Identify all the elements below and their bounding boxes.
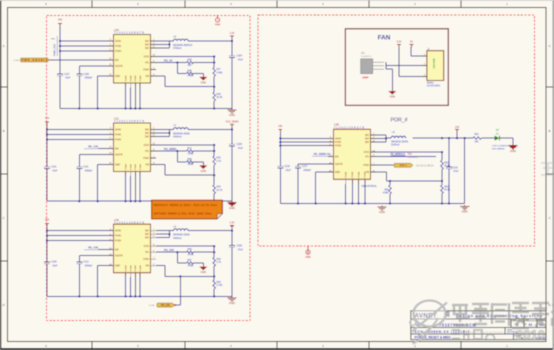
svg-text:DEF: DEF [115,74,121,78]
svg-text:PGND: PGND [135,265,137,272]
svg-text:C209: C209 [237,245,243,247]
svg-text:TLV62130RGTR: TLV62130RGTR [114,120,144,123]
svg-text:PGND: PGND [135,163,137,170]
capacitor C110 (input bypass) [44,166,50,168]
IC U34 TLV62130RGTR (buck regulator) [114,218,151,273]
wire PG [156,251,187,253]
svg-text:C205: C205 [237,144,243,146]
svg-text:R52: R52 [444,162,449,164]
svg-text:PVIN: PVIN [335,140,341,144]
svg-text:SW: SW [365,133,370,137]
power symbol VIN (circuit 3) [45,222,49,224]
wire inductor to output (POR) [413,137,473,139]
svg-text:EN: EN [335,154,339,158]
svg-text:1.74K: 1.74K [188,255,194,257]
svg-text:C111: C111 [83,167,89,169]
svg-text:A: A [549,44,551,48]
svg-text:VIN: VIN [278,125,282,128]
svg-text:VOS: VOS [144,143,150,147]
ground rail [60,108,232,110]
svg-text:3.3V: 3.3V [397,40,402,43]
svg-text:SW: SW [145,229,150,233]
svg-text:VIN: VIN [45,116,49,120]
svg-text:OPTION: DDR3 (1.5V): R15: 100K: OPTION: DDR3 (1.5V): R15: 100K Ohm [154,211,213,215]
feedback divider lower resistor R36 [213,175,215,185]
scan edge left [0,0,1,350]
wire SS/TR [79,154,113,156]
svg-text:2010: 2010 [516,328,545,343]
svg-text:C109: C109 [83,74,89,76]
scan edge top [0,0,554,2]
feedback divider upper resistor R47 [213,57,215,68]
svg-text:C108: C108 [51,262,57,264]
svg-text:FB: FB [146,264,150,268]
svg-text:PGND: PGND [125,265,127,272]
svg-text:EN: EN [115,248,119,252]
svg-text:R40: R40 [188,249,193,251]
svg-text:DNP: DNP [362,75,368,79]
svg-text:R48: R48 [216,94,221,96]
svg-text:C: C [3,216,5,220]
svg-text:PG: PG [365,154,369,158]
title block row lines [411,318,546,320]
wire port to FB node [175,304,181,306]
power symbol VIN (circuit 1) [58,23,62,25]
title row3 dotted trailing [468,331,504,333]
red dashed section box left (power supplies) [47,16,251,321]
svg-text:PG_1V5: PG_1V5 [161,305,170,307]
power symbol VIN (circuit 2) [45,121,49,123]
svg-text:PG_1V0: PG_1V0 [88,246,98,250]
svg-text:3300pF: 3300pF [85,170,93,172]
svg-text:PG_DDR3: PG_DDR3 [164,147,177,151]
power symbol 5V [410,44,414,46]
ground (FAN) [391,90,393,91]
svg-text:PWR_ENABLE: PWR_ENABLE [22,58,48,62]
svg-text:PG_DDR3-1V: PG_DDR3-1V [314,152,331,156]
pin stubs right [151,230,157,232]
capacitor C216 (POR input) [277,165,283,167]
svg-text:4.99K: 4.99K [383,192,389,194]
svg-text:SW: SW [145,127,150,131]
wire output cap to rail [231,247,233,296]
title block outer [411,311,546,340]
svg-text:R12: R12 [188,148,193,150]
wire EN [50,59,114,61]
svg-text:GND: GND [229,301,235,305]
svg-text:PG_1V: PG_1V [164,59,173,63]
svg-text:B: B [549,129,551,133]
svg-text:3: 3 [424,74,425,76]
svg-text:R60: R60 [384,189,389,191]
JP1 pin stubs [373,61,384,63]
svg-text:PGND: PGND [125,75,127,82]
connector JP1 (DNP) [361,52,373,79]
resistor R12 1.96K (PG pull-up) [187,150,194,153]
power symbol VIN (POR) [279,129,283,131]
wire SW bus [156,129,169,131]
svg-text:EN: EN [115,146,119,150]
ground symbol at output [231,296,233,298]
svg-text:3300pF: 3300pF [303,170,311,172]
wire VOS [156,144,214,146]
port POR_# [394,163,413,167]
zone tick marks bottom [91,342,93,349]
svg-text:GND: GND [201,170,207,173]
svg-text:PWR: PWR [305,257,311,259]
svg-text:SS/TR: SS/TR [115,152,123,156]
pin stubs left [108,40,114,42]
wire FB route [156,265,165,267]
power symbol 3.3V [397,44,401,46]
svg-text:47uF: 47uF [238,148,244,150]
svg-text:GND: GND [510,149,516,153]
wire DEF pin to ground rail [98,265,114,267]
capacitor C217 (POR soft-start) [297,164,299,166]
svg-text:34.0K: 34.0K [444,165,450,167]
wire AVIN [47,230,114,232]
svg-text:PGND: PGND [346,171,348,178]
watermark faint glyph right edge [541,163,553,175]
svg-text:R47: R47 [216,69,221,71]
svg-text:SW: SW [145,46,150,50]
capacitor C218 47uF (POR output) [448,138,450,167]
svg-text:VCC_DDR3: VCC_DDR3 [226,120,240,123]
svg-text:4.99K: 4.99K [188,76,194,78]
svg-text:FSW: FSW [143,156,149,160]
IC U30 TLV62130RGTR (POR supply) [334,123,371,180]
wire PVIN2 [47,240,114,242]
pin stubs (POR) [328,137,334,139]
fan header J7 [427,49,444,88]
svg-text:47uF: 47uF [238,60,244,62]
red dashed section box right (fan / POR) [258,15,535,246]
svg-text:VOS: VOS [144,244,150,248]
svg-text:GND: GND [229,206,235,210]
wire PVIN2 [60,50,114,52]
svg-text:4400mA: 4400mA [173,136,182,139]
svg-text:PVIN: PVIN [335,144,341,148]
svg-text:SW: SW [365,136,370,140]
wire SW bus [156,230,169,232]
wire output to cap [231,130,233,145]
wire inductor to output node [188,40,232,42]
wire VOS [156,56,214,58]
svg-text:PGND: PGND [358,171,360,178]
wire PVIN2 (POR) [280,145,333,147]
inductor L3 [169,230,173,232]
svg-text:4.7K: 4.7K [216,161,221,163]
wire VIN vertical rail [59,26,61,74]
svg-text:VOS: VOS [144,54,150,58]
wire SW bus (POR) [376,134,386,136]
svg-text:SW: SW [145,236,150,240]
svg-text:PVIN: PVIN [115,49,121,53]
svg-text:2: 2 [424,64,425,66]
pin stubs left [108,129,114,131]
watermark glyph clipped at right edge [551,305,554,326]
svg-text:GND: GND [462,210,468,214]
pin stubs left [108,230,114,232]
svg-text:DEF: DEF [335,170,341,174]
wire DEF pin to ground rail [98,164,114,166]
wire VOS (POR) [376,151,442,153]
svg-text:DEF: DEF [115,264,121,268]
wire inductor to output node [188,230,232,232]
ground symbol at output [231,201,233,203]
wire FB route [156,75,165,77]
svg-text:DEF: DEF [115,162,121,166]
svg-text:5V: 5V [410,40,413,43]
svg-text:1-1437565-8: 1-1437565-8 [408,157,418,159]
svg-text:4.99K: 4.99K [188,164,194,166]
svg-text:47uF: 47uF [453,171,459,173]
svg-text:SW: SW [145,42,150,46]
svg-text:PG_1V0: PG_1V0 [88,145,98,149]
svg-text:LED GREEN: LED GREEN [492,149,505,151]
svg-text:PGND: PGND [131,75,133,82]
svg-text:PVIN: PVIN [115,234,121,238]
svg-text:SS/TR: SS/TR [335,162,343,166]
ground (triangle) [202,73,204,75]
svg-text:SRP6040-2R2M: SRP6040-2R2M [173,133,190,135]
resistor R57 4.99K [187,262,194,265]
wire output to ground drop (POR) [464,138,466,203]
ground rail [47,295,232,297]
svg-text:1-104257-1: 1-104257-1 [361,56,372,58]
svg-text:TLV62130RGTR: TLV62130RGTR [114,32,144,35]
wire PG [156,62,187,64]
svg-text:PGND: PGND [135,75,137,82]
inductor L4 [169,40,173,42]
svg-text:VIN: VIN [45,217,49,221]
svg-text:FB: FB [146,74,150,78]
ground (triangle) [202,162,204,164]
wire LED to ground (POR) [500,137,514,139]
svg-text:PGND: PGND [140,75,142,82]
svg-text:R57: R57 [188,260,193,262]
capacitor C107 (input bypass) [57,73,63,75]
svg-text:R66: R66 [188,159,193,161]
wire PG (POR) [376,155,436,157]
svg-text:1V0: 1V0 [455,126,460,129]
resistor R60 4.99K (POR) [389,181,391,185]
svg-text:SW: SW [145,134,150,138]
port PWR marker on left box [217,16,219,18]
power symbol output VCC_DDR3 [230,124,234,126]
capacitor C112 (soft-start) [78,256,80,262]
svg-text:PGND: PGND [131,265,133,272]
svg-text:C217: C217 [302,166,308,168]
svg-text:FSW: FSW [143,67,149,71]
capacitor C109 (soft-start) [78,66,80,74]
svg-text:3300pF: 3300pF [85,78,93,80]
ground after LED (POR) [512,144,514,146]
watermark glyphs (chinese characters imitation) [452,303,549,328]
wire PVIN1 [47,235,114,237]
feedback divider lower resistor R59 [213,276,215,280]
svg-text:POR_#: POR_# [390,118,407,124]
divider lower resistor R53 (POR) [441,181,443,185]
watermark logo blob [410,301,447,344]
svg-text:R59: R59 [216,282,221,284]
svg-text:R46: R46 [188,60,193,62]
capacitor C111 (soft-start) [78,155,80,167]
wire to fan header pin [386,65,422,67]
svg-text:TLV62130RGTR: TLV62130RGTR [114,221,144,224]
IC bottom pins to rail (POR) [345,179,347,184]
LED D7 green [492,129,509,150]
ground rail (POR) [280,203,464,205]
title block cell dividers [510,319,512,328]
svg-text:5.76K: 5.76K [216,285,222,287]
wire PVIN1 [60,45,114,47]
scan edge bottom [0,348,554,350]
wire to ground [386,68,392,70]
svg-text:SW: SW [145,232,150,236]
divider upper resistor R52 (POR) [441,152,443,160]
svg-text:1.96K: 1.96K [188,153,194,155]
svg-text:B: B [3,129,5,133]
svg-text:FB: FB [146,162,150,166]
zone tick marks top [91,1,93,8]
resistor R45 4.99K [187,72,194,75]
capacitor C204 (output) [229,55,235,57]
resistor R46 240 (PG pull-up) [187,61,194,64]
wire AVIN [47,129,114,131]
svg-text:30.0K: 30.0K [216,97,222,99]
svg-text:R61: R61 [475,134,480,136]
svg-text:34.7K: 34.7K [216,190,222,192]
wire SS/TR (POR) [298,163,334,165]
port PWR marker on right box [307,247,309,251]
wire VOS [156,245,214,247]
svg-text:GND: GND [201,81,207,84]
inductor L6 (POR) [386,137,391,139]
svg-text:C204: C204 [237,56,243,58]
svg-text:C112: C112 [83,262,89,264]
ground (triangle) [202,263,204,265]
svg-text:PGND: PGND [140,265,142,272]
wire FB route [156,164,165,166]
svg-text:34.0K: 34.0K [444,189,450,191]
svg-text:10uF: 10uF [286,170,292,172]
svg-text:LTST-C190KFKT: LTST-C190KFKT [492,146,509,148]
svg-text:<KJ:10 CL RH:6>: <KJ:10 CL RH:6> [416,165,435,168]
resistor R66 4.99K [187,161,194,164]
svg-text:PVIN: PVIN [115,132,121,136]
svg-text:4400mA: 4400mA [173,237,182,240]
wire PG branch down [176,252,178,263]
svg-text:GND: GND [379,210,385,214]
svg-text:FAN: FAN [378,35,391,42]
capacitor C209 (output) [229,245,235,247]
svg-text:GND: GND [390,95,396,98]
feedback divider lower resistor R48 [213,87,215,92]
svg-text:PGND: PGND [131,163,133,170]
fan header pin stubs [422,55,427,57]
IC U11 TLV62130RGTR (buck regulator) [114,117,151,172]
FAN section border [345,29,448,106]
svg-text:SW: SW [365,140,370,144]
svg-text:1.5V: 1.5V [230,222,235,225]
feedback divider upper resistor R35 [213,145,215,156]
wire EN [98,148,114,150]
svg-text:SS/TR: SS/TR [115,64,123,68]
svg-text:R53: R53 [444,186,449,188]
wire output cap to rail [231,146,233,201]
svg-text:DEFAULT: DDR3 (1.35V) - R15 10: DEFAULT: DDR3 (1.35V) - R15 10.7K Ohm [154,203,218,207]
svg-text:KJ:A4: KJ:A4 [149,304,155,307]
ground rail [47,200,232,202]
svg-text:10nF: 10nF [52,266,58,268]
svg-text:AVIN: AVIN [115,229,121,233]
scan edge right [553,0,554,350]
resistor R61 240 (LED series) [473,137,481,140]
wire PVIN2 [47,139,114,141]
wire output cap to rail [231,58,233,109]
svg-text:PWR_5V0: PWR_5V0 [53,43,57,56]
note box DDR3 option (orange) [152,200,223,219]
svg-text:2100mA: 2100mA [391,144,400,147]
svg-text:A: A [3,44,5,48]
svg-text:INDUSTRIAL: INDUSTRIAL [362,184,378,188]
svg-text:C218: C218 [452,167,458,169]
zone tick marks left [1,86,8,88]
wire FSW to port (POR) [376,164,393,166]
wire PVIN1 [47,134,114,136]
svg-text:C110: C110 [51,167,57,169]
wire SS/TR [79,255,113,257]
capacitor C108 (input bypass) [44,261,50,263]
wire inductor to output node [188,129,232,131]
svg-text:SW: SW [145,131,150,135]
power symbol output 1.0V [230,35,234,37]
ground symbol at output [231,109,233,111]
svg-text:PG: PG [145,149,149,153]
svg-text:AVIN: AVIN [115,127,121,131]
IC bottom pins to ground rail [125,172,127,177]
IC bottom pins to ground rail [125,83,127,88]
svg-text:PVIN: PVIN [115,137,121,141]
svg-text:EN: EN [115,58,119,62]
svg-text:PG: PG [145,60,149,64]
feedback route (POR) [376,171,387,173]
svg-text:SRN3015-2R2M: SRN3015-2R2M [391,142,408,144]
IC U24 TLV62130RGTR (buck regulator) [114,28,151,83]
svg-text:PVIN: PVIN [115,44,121,48]
svg-text:POR_#: POR_# [400,165,408,167]
svg-text:AVIN: AVIN [335,136,341,140]
ground symbol right (POR) [464,205,466,207]
svg-text:FSW: FSW [363,163,369,167]
svg-text:GND: GND [229,113,235,117]
wire AVIN [60,40,114,42]
feedback divider upper resistor R58 [213,246,215,257]
wire EN (POR) [330,155,334,157]
wire VIN vertical rail [46,226,48,262]
svg-text:10nF: 10nF [65,78,71,80]
svg-text:C: C [549,216,551,220]
svg-text:1.0V: 1.0V [230,32,235,35]
power symbol 1V0 (POR output) [455,128,459,130]
svg-text:VOS: VOS [364,150,370,154]
svg-text:PGND: PGND [365,171,367,178]
svg-text:PGND: PGND [125,163,127,170]
svg-text:1: 1 [424,54,425,56]
wire VIN vertical rail [46,125,48,167]
svg-text:FSW: FSW [143,257,149,261]
